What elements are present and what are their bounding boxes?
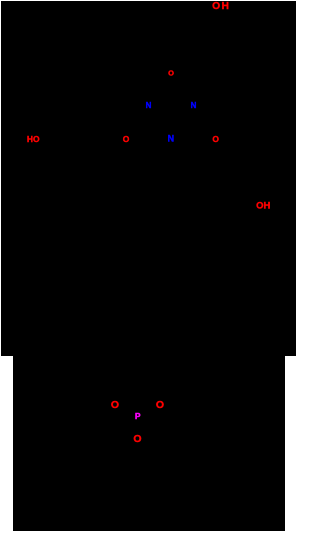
atom label N (left ring nitrogen, molecule 1) — [146, 102, 152, 110]
atom label N (bottom ring nitrogen, molecule 1) — [168, 135, 175, 144]
atom label O (phosphate left oxygen, molecule 2) — [111, 400, 119, 411]
atom label O (left ester oxygen, molecule 1) — [123, 135, 130, 144]
atom label OH (top right, molecule 1) — [212, 2, 230, 12]
atom label O (phosphate right oxygen, molecule 2) — [156, 400, 164, 411]
atom label O (carbonyl top, molecule 1) — [168, 69, 174, 77]
bottom structure image panel (black background) — [13, 356, 285, 531]
atom label P (phosphorus, molecule 2) — [135, 412, 141, 421]
top structure image panel (black background) — [1, 1, 296, 356]
atom label O (right ester oxygen, molecule 1) — [212, 135, 219, 144]
atom label OH (right side, molecule 1) — [256, 201, 270, 211]
atom label HO (far left, molecule 1) — [27, 135, 40, 144]
atom label O (phosphate bottom oxygen, molecule 2) — [133, 434, 141, 445]
atom label N (right ring nitrogen, molecule 1) — [191, 102, 197, 110]
